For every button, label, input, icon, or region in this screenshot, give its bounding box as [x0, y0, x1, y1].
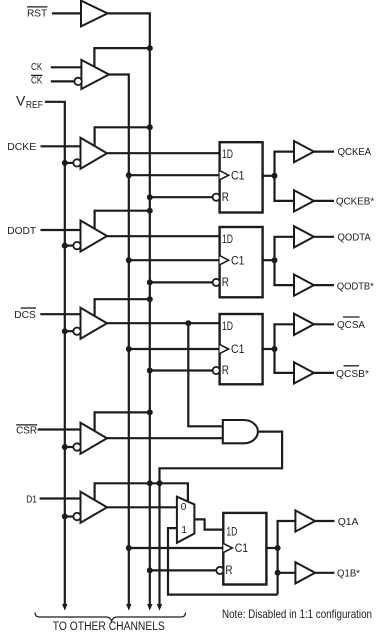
wire AND output to select bus — [160, 432, 283, 605]
wire FF1 Q output — [263, 175, 275, 177]
junction VREF-D1 — [62, 514, 68, 520]
junction RST-CK enable — [147, 45, 153, 51]
wire DCS buffer to FF3 1D — [107, 322, 220, 324]
wire QODTB output — [314, 284, 334, 286]
buffer QCKEA — [294, 141, 314, 162]
buffer QODTB — [294, 275, 314, 296]
arrow RST bus to other channels — [147, 604, 152, 611]
svg-text:1D: 1D — [222, 147, 233, 161]
svg-text:Q1B*: Q1B* — [337, 568, 360, 580]
junction RST-select — [147, 480, 153, 486]
wire FF3 Q output — [263, 348, 275, 350]
wire Q1B output — [315, 572, 334, 574]
wire CSR buffer to AND input — [107, 437, 223, 439]
wire QODTA output — [314, 236, 334, 238]
mux 2:1 — [177, 497, 195, 543]
svg-text:1D: 1D — [226, 524, 237, 538]
label mux 1 — [181, 524, 187, 536]
svg-text:1: 1 — [181, 524, 187, 536]
wire DCKE input — [41, 145, 81, 147]
arrow clock bus to other channels — [126, 604, 131, 611]
svg-text:0: 0 — [181, 501, 187, 513]
wire DCKE buffer to FF1 1D — [107, 152, 220, 154]
wire mux output to FF4 1D — [194, 519, 223, 529]
wire VREF stub to D1 bubble — [65, 515, 74, 517]
svg-text:CSR: CSR — [16, 425, 37, 437]
wire CSR buffer enable from RST — [95, 412, 150, 430]
node Q1B* label — [337, 568, 360, 580]
junction RST-CSR enable — [147, 409, 153, 415]
bubble FF2 R input — [213, 279, 220, 286]
buffer QCKEB — [294, 190, 314, 211]
svg-text:1D: 1D — [222, 232, 233, 246]
wire CSR input — [38, 428, 81, 430]
junction RST-DCS enable — [147, 296, 153, 302]
wire RST bus to FF3 R — [150, 369, 213, 371]
svg-text:QCSB*: QCSB* — [336, 368, 369, 380]
junction VREF-DODT — [62, 243, 68, 249]
bubble CSR vref input — [73, 443, 80, 450]
svg-text:V: V — [16, 93, 26, 109]
junction clock-FF4 — [126, 545, 132, 551]
label mux 0 — [181, 501, 187, 513]
node D1 input label — [26, 493, 37, 505]
node CSR input label — [16, 425, 37, 437]
svg-text:DODT: DODT — [7, 225, 37, 237]
junction FF3 output split — [272, 346, 278, 352]
wire clock bus to FF2 C1 — [129, 259, 220, 261]
wire FF2 Q output — [263, 259, 275, 261]
junction VREF-CSR — [62, 444, 68, 450]
wire CK output to clock bus — [109, 75, 129, 605]
junction clock-FF1 — [126, 172, 132, 178]
junction FF4 output split — [275, 545, 281, 551]
junction RST-FF3 — [147, 368, 153, 374]
wire RST input — [52, 12, 81, 14]
junction FF2 output split — [272, 257, 278, 263]
wire Q1B branch — [278, 572, 296, 574]
wire VREF to vertical bus — [45, 102, 65, 605]
junction RST-FF1 — [147, 194, 153, 200]
svg-text:TO OTHER CHANNELS: TO OTHER CHANNELS — [53, 621, 165, 633]
wire D1 enable / mux select line — [95, 483, 188, 502]
flip-flop FF2 (DODT) — [220, 227, 263, 297]
svg-text:C1: C1 — [235, 541, 249, 555]
wire RST bus to FF4 R — [150, 569, 217, 571]
wire DCS input — [40, 313, 80, 315]
buffer D1 — [81, 492, 108, 523]
buffer Q1B — [295, 562, 315, 583]
node QCKEB* label — [336, 196, 374, 208]
wire QCSA output — [314, 323, 334, 325]
wire clock bus to FF1 C1 — [129, 174, 220, 176]
junction clock-FF2 — [126, 257, 132, 263]
svg-text:1D: 1D — [222, 319, 233, 333]
node QCSB* label — [336, 366, 369, 380]
and-gate CSR/DCS — [223, 420, 258, 443]
junction RST-DODT enable — [147, 208, 153, 214]
svg-text:RST: RST — [27, 8, 48, 20]
wire QCSB output — [314, 372, 334, 374]
wire FF4 Q output — [267, 547, 278, 549]
junction Q1B branch — [275, 570, 281, 576]
junction clock-FF3 — [126, 346, 132, 352]
bubble FF4 R input — [216, 567, 223, 574]
wire VREF stub to CSR bubble — [65, 446, 74, 448]
svg-text:C1: C1 — [231, 168, 245, 182]
bubble DCS vref input — [73, 328, 80, 335]
node CK-bar input label — [31, 75, 42, 87]
wire RST bus to FF1 R — [150, 196, 213, 198]
wire clock bus to FF4 C1 — [129, 547, 224, 549]
buffer QODTA — [294, 226, 314, 247]
node RST input label — [27, 7, 48, 20]
junction VREF-DCS — [62, 328, 68, 334]
flip-flop FF3 (DCS) — [220, 314, 263, 384]
wire FF2 output branch — [275, 237, 295, 285]
node DCKE input label — [7, 141, 36, 153]
node QODTA label — [338, 232, 371, 244]
junction AND-select — [157, 480, 163, 486]
node DODT input label — [7, 225, 37, 237]
bubble DODT vref input — [73, 242, 80, 249]
junction VREF-DCKE — [62, 160, 68, 166]
wire D1 input — [40, 497, 81, 499]
svg-text:QCKEA: QCKEA — [338, 146, 372, 158]
svg-text:DCKE: DCKE — [7, 141, 36, 153]
wire FF4 output branch vertical — [278, 521, 296, 595]
buffer DCKE — [81, 138, 108, 169]
wire DODT buffer enable from RST — [95, 211, 150, 229]
svg-text:R: R — [222, 275, 229, 289]
wire DCKE buffer enable from RST — [95, 127, 150, 145]
node VREF label — [16, 93, 43, 112]
label TO OTHER CHANNELS — [53, 621, 165, 633]
buffer CK differential — [81, 60, 109, 89]
svg-text:REF: REF — [26, 100, 43, 111]
wire VREF stub to DCKE bubble — [65, 162, 74, 164]
wire QCKEA output — [314, 151, 334, 153]
svg-text:Q1A: Q1A — [338, 516, 359, 528]
node DCS input label — [14, 308, 36, 321]
node QODTB* label — [337, 280, 374, 292]
wire RST output to vertical bus — [108, 13, 150, 604]
node Q1A label — [338, 516, 359, 528]
bubble D1 vref input — [73, 513, 80, 520]
junction RST-FF4 — [147, 567, 153, 573]
svg-text:QODTA: QODTA — [338, 232, 371, 244]
svg-text:C1: C1 — [231, 253, 245, 267]
wire QCKEB output — [314, 200, 334, 202]
buffer CSR — [81, 423, 108, 454]
bubble CK-bar input — [74, 78, 81, 85]
svg-text:R: R — [222, 190, 229, 204]
svg-text:QODTB*: QODTB* — [337, 280, 374, 292]
wire FF3 output branch — [275, 324, 295, 373]
svg-text:DCS: DCS — [14, 309, 36, 321]
svg-text:CK: CK — [31, 75, 42, 87]
wire D1 buffer to mux input 0 — [107, 506, 177, 508]
wire Q1 feedback to mux input 1 — [168, 528, 278, 595]
svg-text:D1: D1 — [26, 493, 37, 505]
note disabled in 1:1 configuration — [222, 607, 372, 621]
flip-flop FF4 (D1) — [223, 513, 266, 585]
buffer QCSA — [294, 314, 314, 335]
wire RST bus to FF2 R — [150, 281, 213, 283]
junction RST-DCKE enable — [147, 124, 153, 130]
buffer Q1A — [295, 510, 315, 531]
svg-text:R: R — [225, 563, 232, 577]
wire DCS branch down to AND input — [188, 323, 223, 426]
buffer DCS — [81, 308, 108, 339]
brace to other channels — [35, 613, 186, 622]
svg-text:C1: C1 — [231, 342, 245, 356]
wire VREF stub to DCS bubble — [65, 330, 74, 332]
flip-flop FF1 (DCKE) — [220, 142, 263, 212]
wire Q1A output — [315, 520, 334, 522]
wire VREF stub to DODT bubble — [65, 245, 74, 247]
wire DODT input — [41, 229, 81, 231]
wire CK input — [51, 66, 82, 68]
bubble DCKE vref input — [73, 159, 80, 166]
node QCKEA label — [338, 146, 372, 158]
bubble FF1 R input — [213, 194, 220, 201]
buffer RST — [81, 1, 108, 27]
wire DODT buffer to FF2 1D — [107, 235, 220, 237]
wire FF1 output branch — [275, 152, 295, 201]
node QCSA label — [337, 317, 365, 331]
wire CK-bar input — [51, 80, 75, 82]
buffer DODT — [81, 221, 108, 252]
wire DCS buffer enable from RST — [95, 299, 150, 315]
node CK input label — [31, 61, 42, 73]
bubble FF3 R input — [213, 367, 220, 374]
svg-text:CK: CK — [31, 61, 42, 73]
junction FF1 output split — [272, 173, 278, 179]
svg-text:R: R — [222, 363, 229, 377]
svg-text:QCSA: QCSA — [337, 319, 365, 331]
svg-text:Note: Disabled in 1:1 configur: Note: Disabled in 1:1 configuration — [222, 607, 372, 621]
wire clock bus to FF3 C1 — [129, 348, 220, 350]
buffer QCSB — [294, 362, 314, 383]
wire CK buffer enable from RST — [94, 48, 149, 67]
arrow VREF to other channels — [62, 604, 67, 611]
arrow select bus to other channels — [157, 604, 162, 611]
junction RST-FF2 — [147, 279, 153, 285]
svg-text:QCKEB*: QCKEB* — [336, 196, 374, 208]
junction DCS branch to AND gate — [185, 320, 191, 326]
